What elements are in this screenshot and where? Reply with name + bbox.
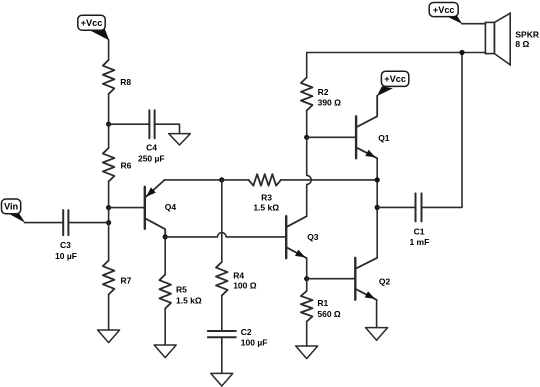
svg-text:R6: R6 <box>121 161 132 171</box>
wire node C to R7 <box>108 223 110 261</box>
wire node E to R5 <box>164 237 166 275</box>
power flag +Vcc (Q1 collector) <box>377 71 409 96</box>
wire node A to R6 <box>108 124 110 148</box>
transistor Q3 NPN arrow <box>295 250 304 257</box>
svg-text:Vin: Vin <box>4 202 19 212</box>
node B junction (Q4 base tap) <box>106 205 111 210</box>
ground (R7) <box>98 330 120 343</box>
svg-text:R3: R3 <box>261 193 272 203</box>
resistor R7 <box>103 261 115 295</box>
svg-text:390 Ω: 390 Ω <box>318 97 342 107</box>
wire Vin to C3 <box>25 222 64 224</box>
wire top rail corner to R2 <box>307 53 486 78</box>
speaker SPKR cone <box>494 13 510 65</box>
transistor Q2 emitter <box>355 289 376 300</box>
node C junction (input) <box>106 220 111 225</box>
label R3 value <box>253 193 279 213</box>
label C3 value <box>55 240 77 261</box>
label Q4 <box>165 202 177 212</box>
node D junction <box>219 177 224 182</box>
svg-text:Q3: Q3 <box>307 232 319 242</box>
svg-text:1.5 kΩ: 1.5 kΩ <box>253 202 279 212</box>
label SPKR value <box>515 29 539 49</box>
svg-text:C4: C4 <box>146 143 157 153</box>
wire R4 to C2 <box>221 296 223 332</box>
transistor Q4 emitter <box>145 180 165 198</box>
wire C4 to ground <box>155 124 180 133</box>
wire node E to Q3 base (hop over R4 branch) <box>165 233 286 237</box>
transistor Q1 NPN arrow <box>366 150 375 157</box>
transistor Q2 collector <box>355 258 377 269</box>
wire Q2 emitter to ground <box>376 300 378 328</box>
wire R6 to node B <box>108 182 110 208</box>
svg-text:10 µF: 10 µF <box>55 251 77 261</box>
wire node B to Q4 base <box>109 207 145 209</box>
svg-text:560 Ω: 560 Ω <box>317 309 341 319</box>
ground (R5) <box>154 345 176 358</box>
svg-text:R8: R8 <box>120 77 131 87</box>
resistor R2 <box>301 78 313 111</box>
transistor Q2 base bar <box>354 258 356 300</box>
label R8 <box>120 77 131 87</box>
resistor R6 <box>103 148 115 182</box>
power flag +Vcc (bias supply) <box>78 15 109 40</box>
svg-text:C3: C3 <box>60 240 71 250</box>
node G junction <box>304 276 309 281</box>
svg-text:R2: R2 <box>318 87 329 97</box>
label C1 value <box>409 227 429 247</box>
node F junction (Q1 base) <box>304 135 309 140</box>
power flag +Vcc (speaker) <box>429 3 462 25</box>
svg-text:100 µF: 100 µF <box>241 338 268 348</box>
resistor R3 <box>249 174 281 186</box>
wire R3 to output node <box>281 179 377 181</box>
resistor R4 <box>216 262 228 296</box>
ground (C4) <box>169 134 191 145</box>
svg-text:SPKR: SPKR <box>515 29 539 39</box>
label R7 <box>121 275 132 285</box>
wire C2 to ground <box>221 337 223 373</box>
wire node G to Q2 base <box>307 278 356 280</box>
label R1 value <box>317 298 341 319</box>
capacitor C4 <box>149 110 154 138</box>
node A junction <box>106 122 111 127</box>
capacitor C3 <box>63 210 68 235</box>
transistor Q4 collector <box>145 218 165 237</box>
ground (R1) <box>296 346 318 359</box>
node E junction (Q4 collector) <box>163 234 168 239</box>
wire node B to node C <box>108 208 110 223</box>
svg-text:R4: R4 <box>233 270 244 280</box>
svg-text:+Vcc: +Vcc <box>384 74 406 84</box>
ground (Q2) <box>366 328 388 341</box>
svg-text:1 mF: 1 mF <box>409 237 429 247</box>
transistor Q4 base bar <box>144 187 146 229</box>
wire node A to C4 <box>109 123 150 125</box>
transistor Q2 NPN arrow <box>365 292 374 299</box>
label C4 value <box>138 143 165 164</box>
label C2 value <box>241 327 268 348</box>
capacitor C2 <box>208 331 236 337</box>
svg-text:+Vcc: +Vcc <box>81 18 103 28</box>
ground (C2) <box>211 373 233 386</box>
wire +Vcc to R8 <box>108 40 110 61</box>
transistor Q1 base bar <box>355 116 357 158</box>
wire node D to R3 <box>222 179 249 181</box>
transistor Q1 collector <box>356 96 377 128</box>
wire +Vcc to speaker + <box>462 23 486 25</box>
transistor Q4 PNP arrow <box>147 188 155 196</box>
svg-text:Q4: Q4 <box>165 202 177 212</box>
svg-text:Q2: Q2 <box>379 277 391 287</box>
wire R7 to ground <box>108 295 110 331</box>
svg-text:100 Ω: 100 Ω <box>233 280 257 290</box>
svg-text:R7: R7 <box>121 275 132 285</box>
label R5 value <box>176 285 202 306</box>
label Q1 <box>378 133 390 143</box>
label R4 value <box>233 270 257 290</box>
node H junction (output) <box>375 177 380 182</box>
svg-text:250 µF: 250 µF <box>138 153 165 163</box>
svg-text:R5: R5 <box>176 285 187 295</box>
wire R5 to ground <box>164 309 166 346</box>
wire Q4 emitter to node D <box>165 179 222 181</box>
wire Q1 base <box>307 136 356 138</box>
wire R8 to node A <box>108 94 110 124</box>
wire Q1 emitter to Q2 collector (output rail) <box>376 158 378 257</box>
input flag Vin <box>2 199 26 223</box>
resistor R5 <box>159 275 171 309</box>
transistor Q3 base bar <box>285 216 287 258</box>
transistor Q1 emitter <box>356 147 377 158</box>
label R6 <box>121 161 132 171</box>
wire node G to R1 <box>306 279 308 291</box>
svg-text:C2: C2 <box>241 327 252 337</box>
wire node D to R4 <box>221 180 223 262</box>
svg-text:R1: R1 <box>317 298 328 308</box>
wire Q3 emitter to node G <box>306 258 308 279</box>
svg-text:+Vcc: +Vcc <box>433 5 455 15</box>
svg-text:1.5 kΩ: 1.5 kΩ <box>176 295 202 305</box>
speaker SPKR body <box>485 22 494 53</box>
label Q3 <box>307 232 319 242</box>
wire R1 to ground <box>306 322 308 347</box>
node I junction (C1 tap) <box>375 205 380 210</box>
wire C1 to speaker node <box>422 53 463 208</box>
svg-text:Q1: Q1 <box>378 133 390 143</box>
node J junction (speaker) <box>459 50 464 55</box>
capacitor C1 <box>416 193 422 221</box>
transistor Q3 emitter <box>286 247 307 258</box>
wire node F to Q3 collector (hop over output line) <box>307 137 312 216</box>
svg-text:8 Ω: 8 Ω <box>515 39 529 49</box>
transistor Q3 collector <box>286 216 307 227</box>
label R2 value <box>318 87 342 107</box>
svg-text:C1: C1 <box>414 227 425 237</box>
wire node I to C1 <box>377 206 415 208</box>
wire C3 to node C <box>68 222 108 224</box>
wire R2 to Q1 base node <box>306 111 308 138</box>
label Q2 <box>379 277 391 287</box>
resistor R1 <box>301 291 313 322</box>
resistor R8 <box>103 60 115 94</box>
